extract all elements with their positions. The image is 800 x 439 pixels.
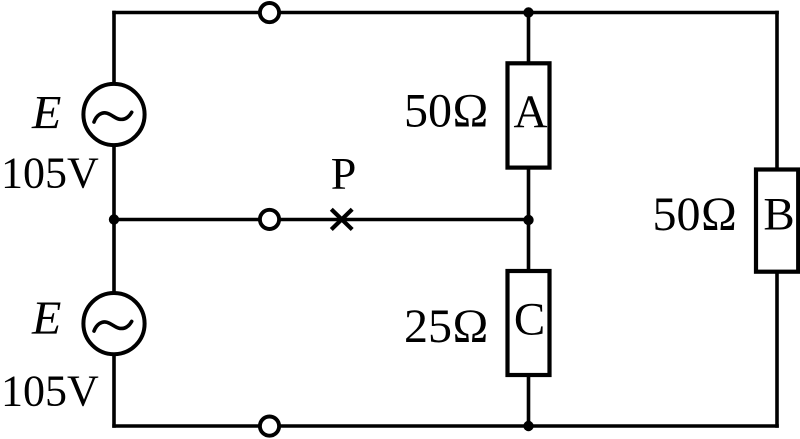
svg-text:50Ω: 50Ω bbox=[653, 188, 738, 241]
svg-text:E: E bbox=[31, 292, 61, 345]
svg-text:E: E bbox=[31, 87, 61, 140]
terminal circle middle bbox=[260, 210, 279, 229]
node dot bottom center bbox=[523, 421, 533, 431]
node dot left middle bbox=[109, 214, 119, 224]
resistor B box bbox=[756, 170, 798, 272]
terminal circle bottom bbox=[260, 417, 279, 436]
wire center vertical bbox=[527, 13, 531, 427]
svg-text:P: P bbox=[331, 148, 357, 199]
svg-text:B: B bbox=[763, 189, 794, 241]
AC source E2 circle bbox=[83, 293, 144, 354]
switch X mark P bbox=[331, 209, 352, 229]
node dot top center bbox=[523, 7, 533, 17]
wire top horizontal bbox=[112, 11, 779, 15]
wire middle horizontal bbox=[114, 218, 529, 222]
svg-text:A: A bbox=[514, 86, 548, 138]
AC source E1 circle bbox=[83, 84, 144, 145]
resistor A box bbox=[508, 63, 550, 167]
resistor C box bbox=[508, 271, 550, 375]
terminal circle top bbox=[260, 3, 279, 22]
svg-text:105V: 105V bbox=[1, 149, 99, 198]
svg-text:105V: 105V bbox=[1, 367, 99, 416]
wire right vertical bbox=[775, 11, 779, 428]
svg-text:50Ω: 50Ω bbox=[404, 85, 489, 138]
wire left vertical bbox=[112, 11, 116, 428]
svg-text:25Ω: 25Ω bbox=[404, 300, 489, 353]
wire bottom horizontal bbox=[112, 424, 779, 428]
node dot center middle bbox=[523, 215, 533, 225]
svg-text:C: C bbox=[514, 294, 545, 346]
